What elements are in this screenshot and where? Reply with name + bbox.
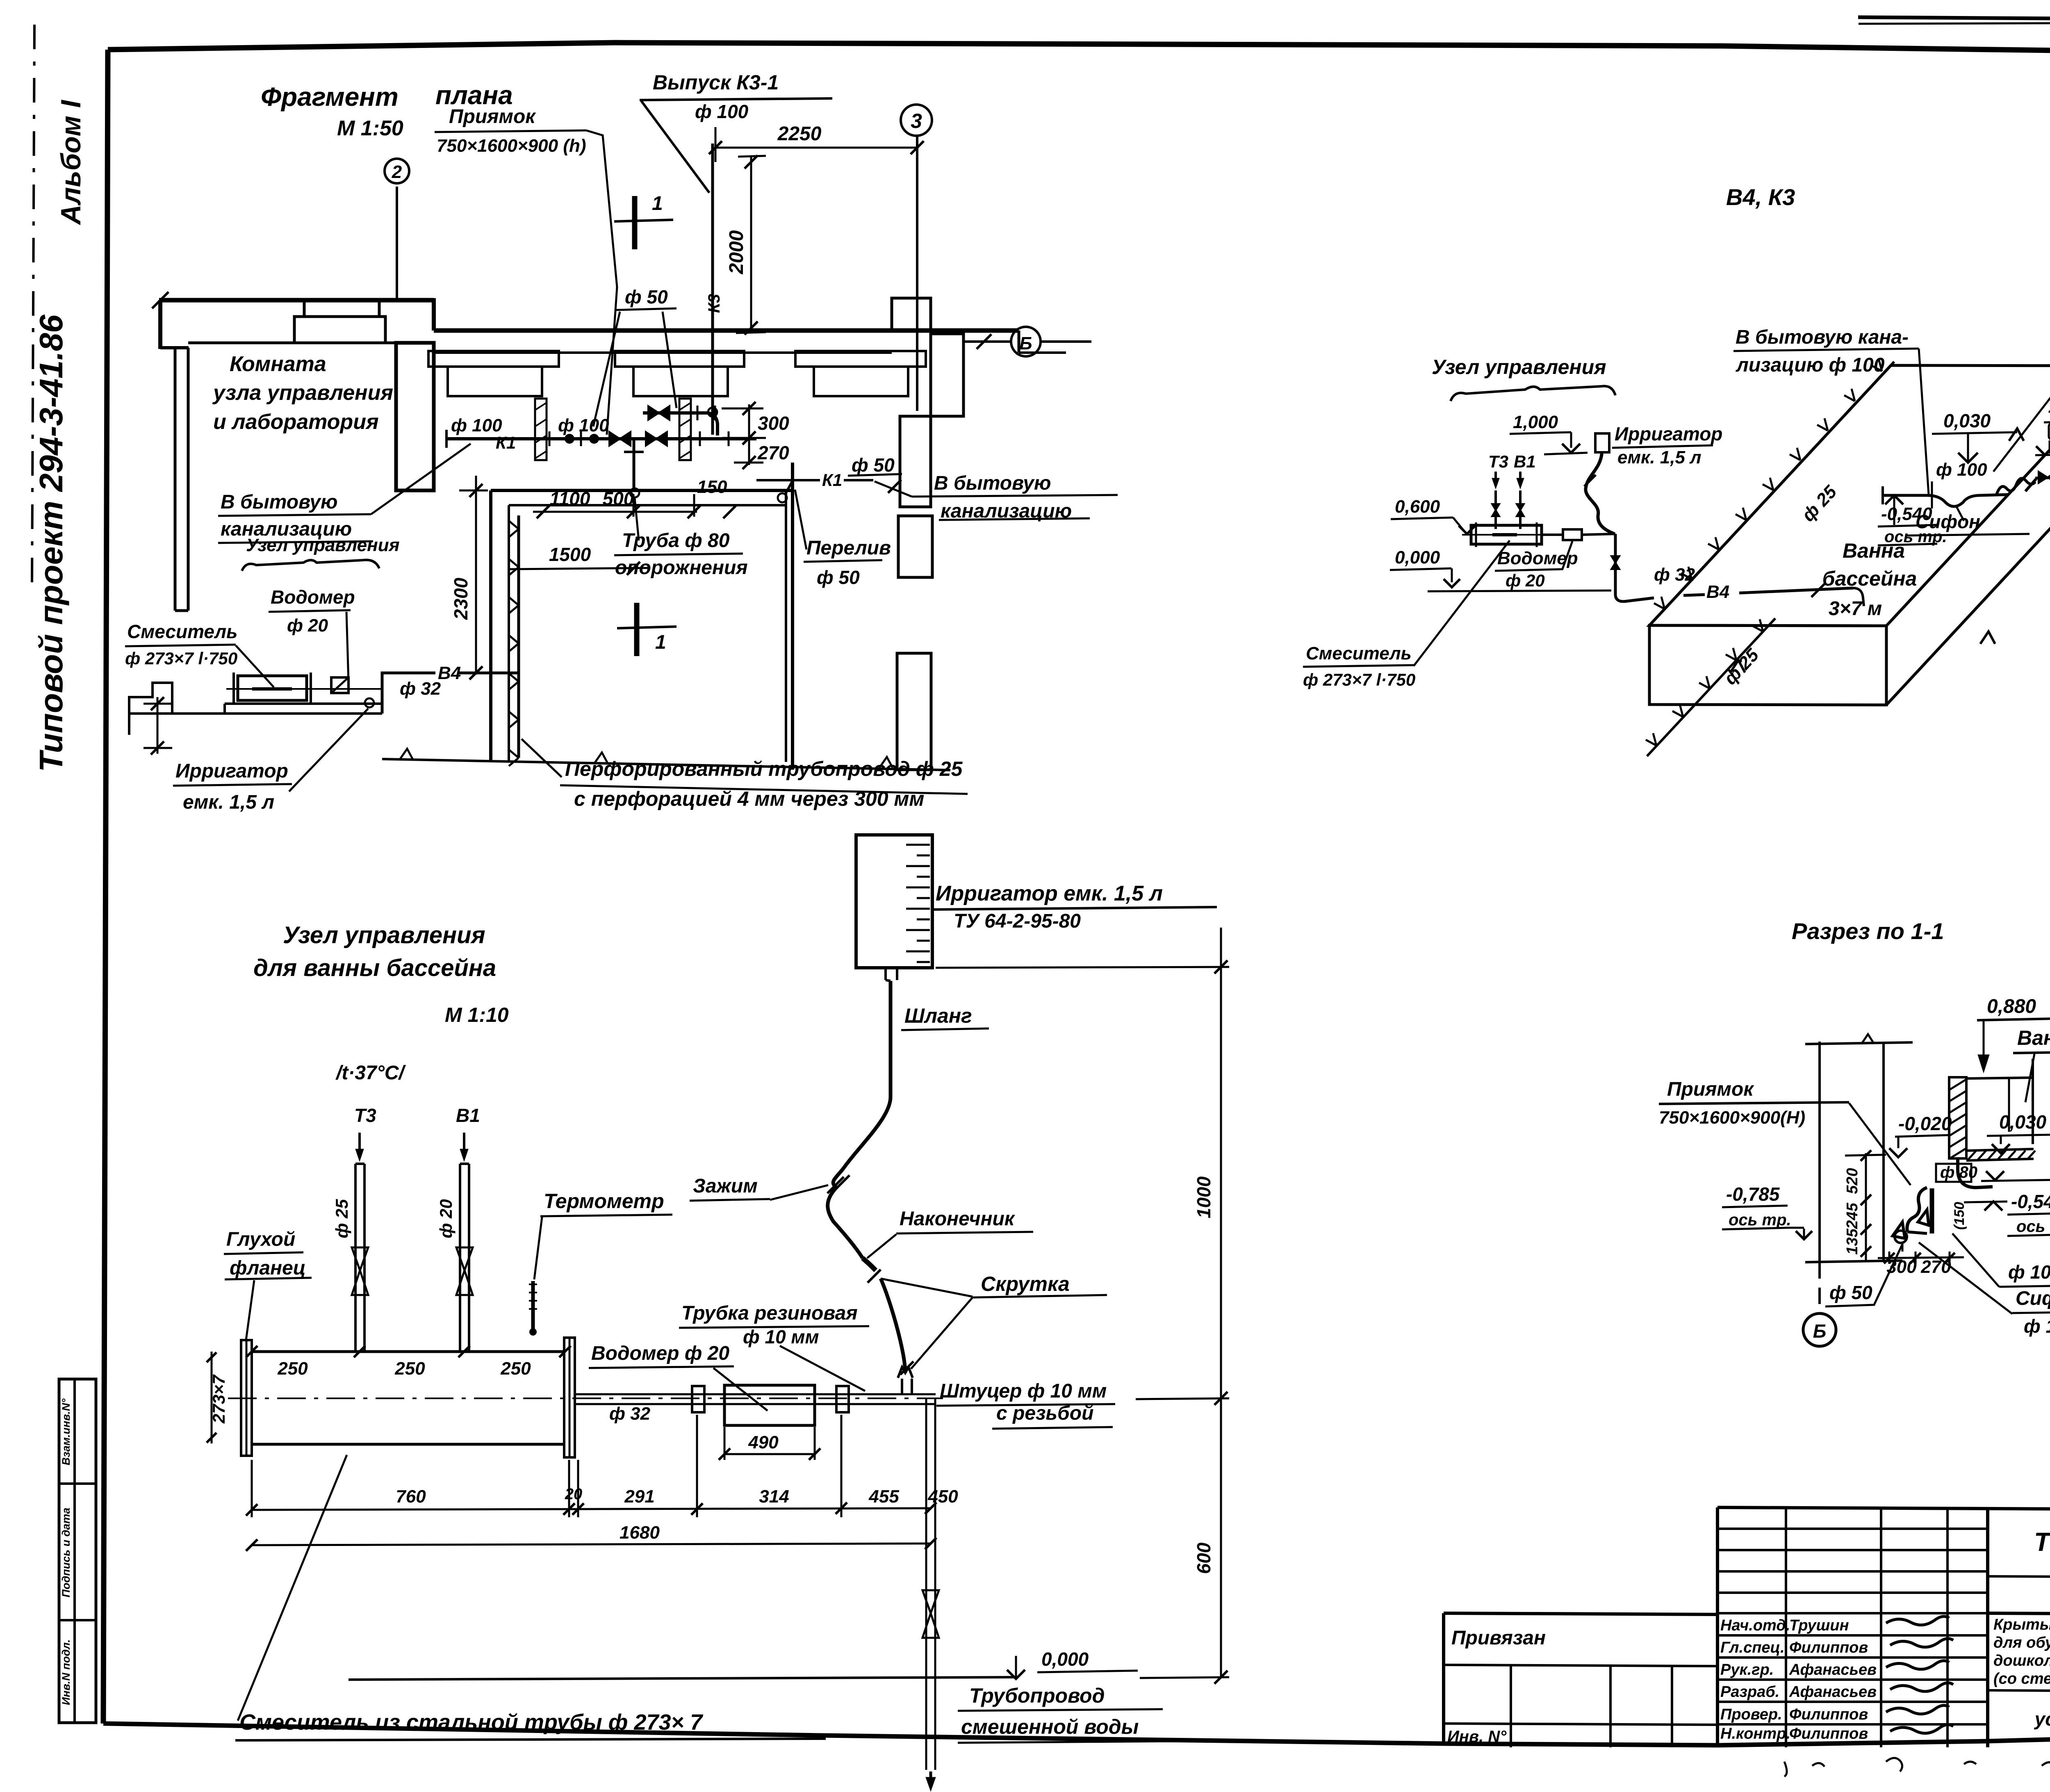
uzel axono brace — [1451, 386, 1615, 401]
pool inner — [509, 490, 786, 762]
pipe K1 dots — [565, 435, 598, 443]
pool box left face — [1649, 625, 1886, 705]
svg-text:ф 100: ф 100 — [695, 101, 749, 122]
perforated pipe plan — [509, 515, 519, 766]
svg-text:(со стенами из кирпича): (со стенами из кирпича) — [1993, 1670, 2050, 1687]
svg-text:Рук.гр.: Рук.гр. — [1720, 1661, 1774, 1678]
unit t3 — [354, 1105, 376, 1161]
title block grid — [1444, 1507, 2050, 1747]
svg-text:250: 250 — [277, 1359, 308, 1379]
pipe V4 plan — [382, 673, 519, 714]
upper pipe elbow — [708, 413, 717, 435]
svg-text:узла управления: узла управления — [212, 381, 393, 405]
top trim band line — [1858, 17, 2050, 24]
svg-text:смешенной воды: смешенной воды — [961, 1715, 1139, 1738]
svg-text:ТП 294-3-41.86: ТП 294-3-41.86 — [2034, 1527, 2050, 1557]
axis 3 line — [916, 136, 918, 411]
svg-text:Зажим: Зажим — [693, 1175, 758, 1197]
baseline axono — [1428, 590, 1611, 591]
svg-text:450: 450 — [927, 1486, 958, 1507]
mixer plan valve — [331, 677, 348, 693]
pipe K1 right — [756, 454, 902, 494]
vodomer unit label — [589, 1343, 768, 1411]
label f32 unit — [609, 1404, 651, 1424]
nakonechnik label — [867, 1208, 1033, 1258]
svg-text:Филиппов: Филиппов — [1789, 1725, 1868, 1742]
svg-text:600: 600 — [1193, 1542, 1214, 1574]
bottom stray marks — [1784, 1758, 2050, 1776]
hose tip — [863, 1258, 876, 1270]
upper pipe plan — [643, 411, 708, 415]
svg-text:1000: 1000 — [1193, 1176, 1214, 1218]
svg-text:250: 250 — [500, 1359, 531, 1379]
f32 V4 line axono — [1654, 565, 1864, 606]
label f100 section — [1952, 1233, 2050, 1287]
axis circle 2 — [385, 159, 409, 183]
svg-text:Трубопровод: Трубопровод — [969, 1684, 1105, 1707]
f50 leader b — [663, 312, 676, 408]
svg-text:ф 100: ф 100 — [558, 415, 609, 435]
section dims vertical — [1844, 1150, 1886, 1262]
level -0330 axono — [2035, 399, 2050, 455]
level 0030 section — [1987, 1111, 2050, 1153]
svg-text:лизацию ф 100: лизацию ф 100 — [1736, 354, 1885, 376]
svg-text:ф 273×7 l·750: ф 273×7 l·750 — [125, 649, 237, 668]
tb doc number — [2034, 1527, 2050, 1557]
drain line in pool — [1883, 486, 2009, 506]
cut mark dash-dot line — [32, 25, 34, 586]
svg-text:М 1:50: М 1:50 — [337, 116, 403, 140]
truboprovod label — [958, 1684, 1181, 1743]
axis B line — [963, 334, 1091, 349]
svg-text:и лаборатория: и лаборатория — [213, 410, 379, 434]
svg-text:Инв. N°: Инв. N° — [1447, 1728, 1507, 1746]
plan scale — [337, 116, 403, 140]
svg-text:Б: Б — [1813, 1320, 1827, 1342]
room label — [212, 352, 393, 434]
thermometer — [529, 1281, 537, 1335]
svg-text:Смеситель: Смеситель — [1306, 643, 1412, 663]
svg-text:Термометр: Термометр — [544, 1190, 664, 1213]
sleeve hatch 1 — [535, 399, 547, 460]
level 1000 axono — [1510, 412, 1588, 454]
svg-text:ось тр.: ось тр. — [1729, 1211, 1791, 1229]
meter axono — [1563, 529, 1582, 540]
svg-text:2: 2 — [392, 162, 402, 182]
pool box front face — [1886, 366, 2050, 705]
dim left small — [143, 697, 172, 755]
svg-text:ф 25: ф 25 — [1798, 481, 1840, 525]
t3 v1 arrows — [1492, 472, 1524, 489]
water meter unit — [724, 1385, 815, 1425]
svg-text:0,000: 0,000 — [1041, 1648, 1089, 1670]
svg-text:Трушин: Трушин — [1789, 1617, 1849, 1634]
dim right vertical — [936, 928, 1229, 1684]
svg-text:В4: В4 — [1706, 582, 1729, 602]
svg-text:2300: 2300 — [450, 577, 471, 620]
svg-text:В4: В4 — [438, 663, 461, 683]
svg-text:Узел управления: Узел управления — [1432, 356, 1606, 378]
label V4 plan — [435, 663, 461, 683]
svg-text:Афанасьев: Афанасьев — [1789, 1683, 1877, 1701]
t3 v1 labels — [1488, 452, 1536, 471]
svg-text:ф 20: ф 20 — [436, 1199, 456, 1238]
plan right wall stub — [1019, 331, 1066, 353]
label f50 section — [1825, 1244, 1902, 1306]
svg-text:Ирригатор емк. 1,5 л: Ирригатор емк. 1,5 л — [936, 882, 1163, 905]
section dim 300 270 — [1878, 1252, 1964, 1277]
svg-text:Б: Б — [1019, 333, 1032, 353]
axis 2 line — [396, 187, 398, 299]
dim 150 — [697, 477, 736, 518]
dim line 1680 row1 — [246, 1486, 958, 1516]
plan pipes lower — [129, 683, 382, 735]
svg-text:опорожнения: опорожнения — [615, 557, 748, 579]
svg-text:Наконечник: Наконечник — [900, 1208, 1016, 1230]
svg-text:Перелив: Перелив — [806, 537, 891, 559]
section mark 1 top — [614, 193, 673, 249]
pool label — [1822, 539, 1917, 620]
svg-text:К1: К1 — [822, 470, 842, 490]
pool wall hatched — [1949, 1077, 1966, 1159]
svg-text:1100: 1100 — [550, 488, 590, 509]
label f100 a — [451, 415, 502, 435]
svg-text:150: 150 — [697, 477, 727, 497]
label 273x7 — [207, 1352, 228, 1443]
svg-text:Сифон: Сифон — [2016, 1288, 2050, 1309]
svg-text:В бытовую: В бытовую — [934, 472, 1051, 494]
irrigator funnel — [886, 968, 897, 981]
svg-text:емк. 1,5 л: емк. 1,5 л — [183, 791, 274, 813]
svg-text:Крытый бассейн с ванной 3×7м: Крытый бассейн с ванной 3×7м — [1993, 1616, 2050, 1633]
svg-text:Приямок: Приямок — [1667, 1078, 1754, 1100]
svg-text:Ирригатор: Ирригатор — [1615, 423, 1722, 445]
uzel axono title — [1432, 356, 1606, 378]
big pipe body — [252, 1352, 565, 1444]
valve K1 b — [646, 432, 667, 446]
svg-text:ф 25: ф 25 — [332, 1199, 351, 1238]
siphon label axono — [1906, 505, 2029, 536]
svg-text:Фрагмент: Фрагмент — [261, 82, 399, 112]
K1 tee drop — [624, 439, 644, 490]
thin pipe right — [575, 1394, 936, 1404]
pool box top face — [1649, 365, 2050, 626]
shtucer — [898, 1367, 913, 1394]
perf label — [522, 739, 968, 810]
svg-text:750×1600×900 (h): 750×1600×900 (h) — [437, 136, 586, 156]
svg-text:-0,020: -0,020 — [1898, 1113, 1952, 1134]
svg-text:ф 10 мм: ф 10 мм — [743, 1326, 819, 1347]
wall column right top — [892, 298, 931, 331]
svg-text:490: 490 — [748, 1432, 779, 1452]
level 0030 axono — [1932, 410, 2017, 463]
svg-text:ф 50: ф 50 — [817, 567, 860, 588]
wall right band — [931, 334, 963, 416]
skrutka mark — [868, 1270, 913, 1375]
dim bottom 1 — [252, 1415, 926, 1517]
svg-text:0,880: 0,880 — [1987, 996, 2036, 1017]
tb scheme name — [2034, 1690, 2050, 1730]
album label — [55, 99, 87, 226]
thermometer label — [534, 1190, 672, 1279]
svg-text:270: 270 — [757, 442, 789, 463]
label f25 low — [1720, 645, 1763, 689]
dim 2250 — [709, 123, 924, 162]
svg-text:Гл.спец.: Гл.спец. — [1720, 1639, 1785, 1656]
zazhim mark — [827, 1175, 850, 1193]
svg-text:ф 50: ф 50 — [625, 286, 668, 308]
priyamok label — [0, 0, 0, 0]
svg-text:0,030: 0,030 — [1999, 1111, 2047, 1133]
svg-text:Шланг: Шланг — [904, 1004, 972, 1027]
dim 2300 — [450, 476, 488, 679]
smesitel unit label — [235, 1455, 826, 1740]
svg-text:В1: В1 — [456, 1105, 480, 1126]
svg-text:Узел управления: Узел управления — [246, 535, 400, 555]
zazhim label — [690, 1175, 828, 1201]
project label — [33, 315, 69, 772]
svg-text:В бытовую: В бытовую — [221, 491, 337, 513]
down pipe unit — [922, 1399, 939, 1770]
unit v1 — [456, 1105, 480, 1161]
axono title — [1726, 184, 1795, 210]
upper pipe valve b — [648, 406, 670, 420]
svg-text:Трубка резиновая: Трубка резиновая — [681, 1302, 858, 1324]
svg-text:750×1600×900(Н): 750×1600×900(Н) — [1659, 1108, 1805, 1128]
union 2 — [836, 1386, 849, 1412]
tb inv no — [1447, 1728, 1507, 1746]
svg-text:для обучения плаванию детей: для обучения плаванию детей — [1993, 1634, 2050, 1651]
pipe K1 plan — [446, 430, 756, 448]
level -0540 section — [1964, 1191, 2050, 1236]
svg-text:Провер.: Провер. — [1720, 1706, 1782, 1723]
uzel upr plan label — [242, 535, 400, 571]
label f50 top — [615, 286, 676, 310]
svg-text:ф 80: ф 80 — [1940, 1163, 1977, 1181]
irrigator axono box — [1595, 433, 1609, 452]
wall stub mid — [396, 343, 434, 490]
svg-text:135: 135 — [1844, 1228, 1861, 1254]
svg-text:Приямок: Приямок — [449, 106, 536, 128]
svg-text:ось тр.: ось тр. — [2016, 1217, 2050, 1236]
svg-text:Разрез по 1-1: Разрез по 1-1 — [1792, 918, 1944, 944]
svg-text:0,000: 0,000 — [1395, 547, 1440, 568]
svg-text:ф 100: ф 100 — [451, 415, 502, 435]
svg-text:Скрутка: Скрутка — [981, 1272, 1070, 1295]
level 0880 — [1977, 996, 2050, 1073]
label f20 unit — [436, 1199, 456, 1238]
svg-text:/t·37°С/: /t·37°С/ — [335, 1062, 406, 1084]
svg-text:Типовой проект 294-3-41.86: Типовой проект 294-3-41.86 — [33, 315, 69, 772]
big pipe left flange — [241, 1340, 252, 1456]
svg-text:Подпись и дата: Подпись и дата — [60, 1508, 72, 1598]
union 1 — [692, 1386, 704, 1412]
tb object name — [1993, 1616, 2050, 1687]
irrigator axono hose — [1584, 452, 1615, 534]
vanna basseina label — [2013, 1026, 2050, 1102]
f50 leader a — [593, 312, 620, 426]
vypusk leader — [641, 101, 709, 193]
wall top right outer — [434, 298, 1019, 331]
pool floor hatched — [1966, 1149, 2035, 1160]
tb signatures — [1720, 1616, 1953, 1742]
svg-text:Водомер ф 20: Водомер ф 20 — [591, 1343, 729, 1364]
pool box breaks — [1730, 429, 2050, 673]
mixer plan — [226, 673, 383, 704]
dim 490 — [719, 1427, 820, 1460]
trubka rezin label — [679, 1302, 869, 1391]
section mark 1 bottom — [617, 603, 676, 656]
pereliv label — [795, 490, 891, 588]
riser K3 — [711, 144, 714, 435]
svg-text:500: 500 — [603, 488, 634, 509]
temp label — [335, 1062, 406, 1084]
svg-text:Смеситель: Смеситель — [127, 621, 237, 642]
side stamp label inv — [60, 1639, 72, 1705]
svg-text:Водомер: Водомер — [271, 586, 355, 608]
gluhoy flanec label — [224, 1229, 312, 1340]
wall right lower — [900, 416, 931, 507]
smesitel axono label — [1303, 540, 1510, 689]
dim 2000 — [726, 155, 766, 335]
side stamp label podpis — [60, 1508, 72, 1598]
pipe f80 elbow — [1958, 1158, 1993, 1188]
svg-text:Инв.N подл.: Инв.N подл. — [60, 1639, 72, 1705]
riser junction circle — [708, 408, 717, 417]
svg-text:455: 455 — [868, 1486, 899, 1507]
plan title — [261, 80, 513, 112]
window bay 3 — [795, 351, 926, 396]
svg-text:Смеситель из стальной трубы: Смеситель из стальной трубы ф 273× 7 — [239, 1710, 704, 1735]
svg-text:с перфорацией 4 мм через 3: с перфорацией 4 мм через 300 мм — [574, 787, 924, 810]
svg-text:ф 100: ф 100 — [1936, 460, 1987, 480]
svg-text:ф 50: ф 50 — [852, 454, 895, 476]
mixer meter pipes — [1542, 534, 1615, 535]
svg-text:ф 32: ф 32 — [609, 1404, 651, 1424]
irrigator plan circle — [365, 698, 374, 707]
svg-text:Взам.инв.N°: Взам.инв.N° — [60, 1398, 72, 1465]
svg-text:314: 314 — [759, 1486, 789, 1507]
priyamok section label — [1659, 1078, 1911, 1185]
svg-text:бассейна: бассейна — [1822, 567, 1917, 590]
svg-text:емк. 1,5 л: емк. 1,5 л — [1617, 447, 1701, 467]
wall top-left outer — [159, 300, 434, 349]
svg-text:1: 1 — [652, 193, 663, 214]
room top line — [188, 342, 396, 344]
axis circle B — [1011, 327, 1041, 356]
upper pipe ticks — [697, 406, 715, 420]
axis circle 3 — [901, 105, 932, 136]
unit title — [253, 922, 509, 1026]
down pipe arrow — [926, 1771, 936, 1791]
label f80 box — [1936, 1163, 1977, 1182]
wall top right inner — [434, 351, 892, 354]
svg-text:В4, К3: В4, К3 — [1726, 184, 1795, 210]
skrutka label — [881, 1272, 1107, 1369]
drop valve axono — [1611, 534, 1619, 595]
svg-text:1500: 1500 — [549, 544, 591, 565]
svg-text:245: 245 — [1844, 1202, 1861, 1229]
smesitel plan label — [125, 621, 274, 687]
svg-text:установок В4 и К3: установок В4 и К3 — [2034, 1708, 2050, 1730]
svg-text:-0,785: -0,785 — [1726, 1183, 1780, 1205]
pereliv fitting — [778, 493, 787, 502]
top wall column — [294, 300, 385, 343]
irrigator unit box — [856, 835, 932, 968]
drain siphon wiggle — [1997, 479, 2035, 494]
dim 300 270 — [722, 402, 789, 469]
svg-text:М 1:10: М 1:10 — [445, 1003, 509, 1026]
dim 250 x3 — [246, 1346, 571, 1379]
window bay 2 — [615, 351, 744, 396]
svg-text:Ванна бассейна: Ванна бассейна — [2017, 1026, 2050, 1049]
level 0600 axono — [1391, 497, 1475, 534]
dim 1100 500 — [533, 488, 701, 518]
riser K3 label — [705, 294, 723, 313]
label f100 b — [558, 415, 609, 435]
vypusk K3 label — [640, 71, 832, 122]
section bottom line — [1805, 1261, 1902, 1262]
svg-text:ф 32: ф 32 — [1654, 565, 1695, 585]
ground line unit — [348, 1648, 1138, 1680]
label K1 a — [496, 433, 516, 452]
level -0540 axono left — [1878, 495, 1947, 546]
svg-text:3: 3 — [911, 109, 922, 132]
section lower ext — [1902, 1243, 1904, 1252]
label f100 in pool — [1932, 460, 1987, 508]
svg-text:Филиппов: Филиппов — [1789, 1706, 1868, 1723]
pool outer — [491, 463, 793, 770]
wall top tick left — [152, 292, 169, 308]
svg-text:1,000: 1,000 — [1513, 412, 1558, 432]
perforated pipe axono 1 — [1654, 359, 1894, 620]
svg-text:520: 520 — [1844, 1168, 1861, 1194]
level -0785 section — [1722, 1183, 1812, 1239]
v bytovuyu left — [218, 444, 471, 543]
big pipe centerline — [228, 1398, 943, 1399]
perforated pipe axono 2 — [1646, 618, 1775, 756]
svg-text:ф 25: ф 25 — [1720, 645, 1763, 689]
svg-text:фланец: фланец — [230, 1257, 306, 1279]
svg-text:300: 300 — [758, 413, 789, 434]
svg-text:250: 250 — [394, 1359, 425, 1379]
svg-text:0,030: 0,030 — [1943, 410, 1991, 431]
window bay 1 — [428, 351, 559, 396]
svg-text:Штуцер ф 10 мм: Штуцер ф 10 мм — [940, 1380, 1107, 1402]
level -0330 section — [1981, 1131, 2050, 1181]
sifon label section — [1919, 1243, 2050, 1337]
plan door jamb b — [897, 653, 931, 770]
svg-text:Альбом I: Альбом I — [55, 99, 87, 226]
shtucer label — [936, 1380, 1115, 1429]
level 0000 axono — [1390, 547, 1460, 587]
svg-text:ф 32: ф 32 — [400, 679, 441, 699]
section vert 2 — [1882, 1043, 1885, 1262]
t3 v1 pipes — [1492, 490, 1524, 529]
svg-text:Афанасьев: Афанасьев — [1789, 1661, 1877, 1678]
svg-text:2000: 2000 — [726, 230, 747, 274]
svg-text:Сифон: Сифон — [1916, 511, 1980, 532]
svg-text:Глухой: Глухой — [226, 1229, 295, 1250]
section siphon — [1893, 1188, 1932, 1243]
svg-text:Н.контр.: Н.контр. — [1720, 1725, 1790, 1742]
irrigator plan label — [173, 709, 368, 813]
v bytovuyu right — [875, 472, 1118, 522]
level -0020 — [1889, 1113, 1952, 1157]
svg-text:Т3: Т3 — [354, 1105, 376, 1126]
svg-text:ф 20: ф 20 — [287, 616, 328, 636]
dim 1500 — [509, 544, 648, 575]
